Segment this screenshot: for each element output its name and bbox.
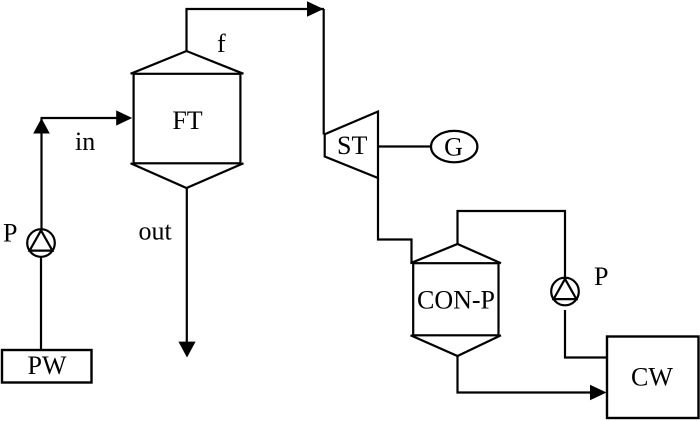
wire: FT top to ST (f line) with arrow bbox=[187, 9, 325, 51]
generator G bbox=[431, 131, 477, 162]
svg-text:ST: ST bbox=[337, 131, 367, 160]
svg-text:CON-P: CON-P bbox=[417, 286, 495, 315]
pump P2 (right) bbox=[551, 278, 579, 306]
svg-text:G: G bbox=[444, 133, 463, 162]
box PW bbox=[2, 350, 92, 383]
pump P1 (left) bbox=[27, 229, 55, 257]
turbine ST bbox=[325, 112, 378, 179]
vessel FT bbox=[131, 51, 244, 188]
wire: ST to G bbox=[378, 145, 432, 147]
wire: CON-P top loop to pump P2 and CW bbox=[458, 211, 566, 285]
svg-text:in: in bbox=[75, 127, 95, 156]
box CW bbox=[607, 337, 699, 419]
wire: in-line into FT with arrow bbox=[41, 117, 121, 119]
wire: CON-P bottom to CW with arrow bbox=[458, 356, 591, 393]
svg-text:FT: FT bbox=[172, 106, 202, 135]
svg-text:out: out bbox=[139, 217, 173, 246]
vessel CON-P bbox=[411, 244, 502, 356]
wire: PW to pump P (left) bbox=[40, 257, 42, 350]
wire: FT bottom out arrow bbox=[186, 188, 188, 343]
wire: ST drain to CON-P bbox=[378, 178, 412, 264]
wire: pump P up to corner, arrow up bbox=[40, 118, 42, 230]
svg-text:P: P bbox=[594, 262, 608, 291]
svg-text:PW: PW bbox=[28, 351, 67, 380]
svg-text:f: f bbox=[217, 29, 226, 58]
svg-text:CW: CW bbox=[631, 363, 673, 392]
svg-text:P: P bbox=[3, 219, 17, 248]
